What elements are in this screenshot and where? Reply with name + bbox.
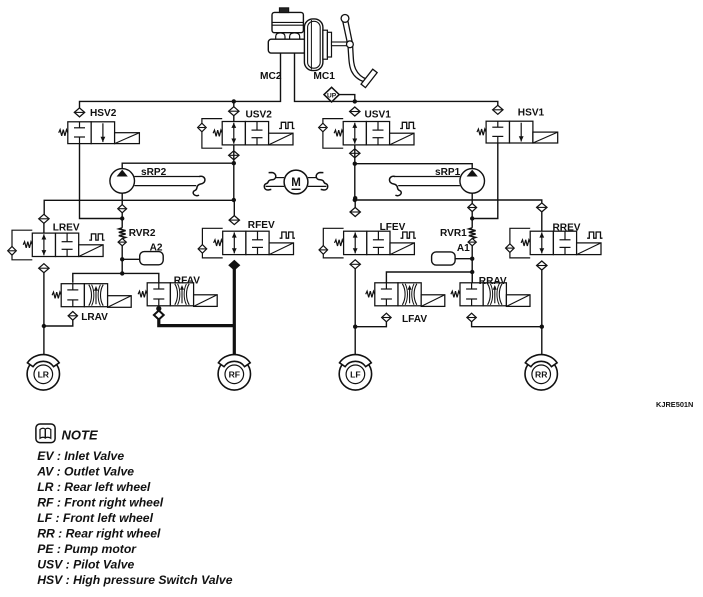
wire RFAV outlet (energized) bbox=[159, 320, 235, 326]
valve RREV bbox=[506, 228, 603, 258]
label A2 bbox=[150, 243, 163, 254]
restrictor RVR2 bbox=[118, 228, 126, 246]
pump sRP2 bbox=[110, 169, 205, 196]
note title bbox=[62, 428, 98, 443]
wire AV feed bus left bbox=[73, 273, 159, 282]
wire RVR1 down bbox=[471, 246, 473, 283]
accumulator A2 bbox=[140, 252, 164, 265]
label RREV bbox=[553, 223, 581, 234]
svg-text:sRP1: sRP1 bbox=[435, 167, 461, 178]
label USV1 bbox=[365, 109, 392, 120]
legend line RR bbox=[37, 527, 161, 541]
label sRP1 bbox=[435, 167, 461, 178]
svg-text:USV1: USV1 bbox=[365, 109, 392, 120]
wire LREV body lead bbox=[43, 223, 45, 233]
LFEV bottom diamond bbox=[350, 260, 360, 269]
junction sRP2 suction bbox=[232, 161, 236, 165]
junction on left rail bbox=[232, 99, 236, 103]
junction HSV1 return bbox=[470, 216, 474, 220]
junction A2 branch bbox=[120, 257, 124, 261]
junction LFAV outlet bbox=[353, 325, 357, 329]
wire RRAV outlet bbox=[472, 322, 542, 327]
svg-text:A2: A2 bbox=[150, 243, 163, 254]
valve HSV2 bbox=[59, 122, 140, 144]
wire RREV to RR wheel bbox=[541, 270, 543, 358]
wire RRAV feed bbox=[471, 272, 473, 283]
svg-text:AV : Outlet Valve: AV : Outlet Valve bbox=[36, 464, 134, 478]
booster push rod bbox=[332, 42, 348, 46]
label RFAV bbox=[174, 275, 200, 286]
wire RVR2 down bbox=[121, 246, 123, 274]
svg-text:PE : Pump motor: PE : Pump motor bbox=[37, 542, 137, 556]
master cylinder body bbox=[268, 39, 306, 53]
RFEV top diamond bbox=[229, 216, 239, 225]
svg-text:RRAV: RRAV bbox=[479, 276, 507, 287]
legend line PE bbox=[37, 542, 137, 556]
label LFEV bbox=[380, 222, 406, 233]
svg-text:LFEV: LFEV bbox=[380, 222, 406, 233]
legend line LR bbox=[37, 480, 151, 494]
svg-text:MC1: MC1 bbox=[313, 71, 335, 82]
svg-text:UP: UP bbox=[327, 92, 337, 99]
wire to accumulator A1 bbox=[455, 258, 472, 260]
wire RFEV drop bbox=[233, 200, 235, 216]
junction pump bus left bbox=[353, 198, 357, 202]
label RRAV bbox=[479, 276, 507, 287]
svg-text:NOTE: NOTE bbox=[62, 428, 98, 443]
brake booster shell bbox=[304, 19, 323, 71]
restrictor RVR1 bbox=[468, 228, 476, 246]
svg-text:RF : Front right wheel: RF : Front right wheel bbox=[37, 495, 164, 509]
label USV2 bbox=[246, 109, 273, 120]
svg-text:LF: LF bbox=[350, 370, 361, 380]
label sRP2 bbox=[141, 167, 167, 178]
USV1 bottom diamond bbox=[350, 149, 360, 158]
valve RFEV bbox=[198, 228, 295, 258]
wire MC2 outlet pipe bbox=[80, 53, 281, 108]
junction LFEV drop bbox=[353, 196, 357, 200]
svg-text:RR: RR bbox=[535, 370, 548, 380]
valve LREV bbox=[8, 230, 105, 260]
junction AV bus left bbox=[120, 271, 124, 275]
label A1 bbox=[457, 243, 470, 254]
wire MC1 outlet pipe bbox=[295, 53, 498, 106]
junction LRAV outlet bbox=[42, 324, 46, 328]
sRP2 outlet diamond bbox=[118, 205, 127, 213]
RREV bottom diamond bbox=[537, 261, 547, 270]
junction HSV2 return bbox=[120, 216, 124, 220]
wire to accumulator A2 bbox=[122, 258, 140, 260]
svg-text:EV : Inlet Valve: EV : Inlet Valve bbox=[37, 449, 124, 463]
reservoir outlet domes bbox=[276, 33, 300, 41]
legend line AV bbox=[36, 464, 134, 478]
motor right coupling bbox=[308, 173, 328, 191]
wire LFEV to LF wheel bbox=[354, 269, 356, 358]
svg-text:M: M bbox=[291, 177, 301, 189]
junction sRP1 suction bbox=[353, 162, 357, 166]
brake pedal arm bbox=[343, 18, 368, 82]
wire RREV body lead bbox=[541, 212, 543, 232]
wire LRAV outlet bbox=[44, 320, 73, 326]
svg-text:RVR1: RVR1 bbox=[440, 228, 467, 239]
junction AV bus right bbox=[470, 270, 474, 274]
pump sRP1 bbox=[389, 169, 484, 196]
wire HSV2 return bbox=[80, 144, 123, 219]
LREV top diamond bbox=[39, 214, 49, 223]
svg-text:LREV: LREV bbox=[53, 223, 80, 234]
svg-text:USV : Pilot Valve: USV : Pilot Valve bbox=[37, 558, 134, 572]
HSV1 inlet diamond bbox=[493, 105, 503, 114]
USV1 top diamond bbox=[350, 107, 360, 116]
label LRAV bbox=[81, 312, 108, 323]
wheel RR bbox=[525, 355, 557, 391]
wire USV1 to pump bus bbox=[354, 145, 356, 200]
valve LRAV bbox=[52, 284, 131, 308]
motor left coupling bbox=[264, 173, 284, 191]
label RVR2 bbox=[129, 228, 156, 239]
wire UP to USV1 branch bbox=[339, 95, 355, 102]
junction RFAV outlet (active) bbox=[156, 306, 161, 311]
svg-text:HSV : High pressure Switch Val: HSV : High pressure Switch Valve bbox=[37, 573, 233, 587]
junction A1 branch bbox=[470, 257, 474, 261]
svg-text:RVR2: RVR2 bbox=[129, 228, 156, 239]
junction RRAV outlet bbox=[540, 325, 544, 329]
proportioning valve UP bbox=[324, 87, 339, 102]
label RVR1 bbox=[440, 228, 467, 239]
LFAV bottom diamond bbox=[382, 313, 391, 322]
svg-text:USV2: USV2 bbox=[246, 109, 273, 120]
label LREV bbox=[53, 223, 80, 234]
accumulator A1 bbox=[432, 252, 456, 265]
svg-text:MC2: MC2 bbox=[260, 71, 282, 82]
pedal pad bbox=[361, 69, 377, 87]
valve RFAV bbox=[138, 283, 217, 307]
booster flange rings bbox=[323, 30, 332, 59]
brake fluid reservoir bbox=[272, 12, 303, 32]
svg-text:RR : Rear right wheel: RR : Rear right wheel bbox=[37, 527, 161, 541]
junction pump bus right bbox=[232, 198, 236, 202]
svg-text:A1: A1 bbox=[457, 243, 470, 254]
wire sRP1 suction line bbox=[355, 164, 472, 169]
label RFEV bbox=[248, 220, 275, 231]
valve LFEV bbox=[319, 228, 416, 258]
RFEV bottom diamond (active) bbox=[229, 261, 239, 270]
valve LFAV bbox=[366, 283, 445, 307]
wire RFEV to RF wheel (energized) bbox=[233, 265, 236, 358]
svg-text:LRAV: LRAV bbox=[81, 312, 108, 323]
pedal pivot pin bbox=[341, 15, 353, 48]
svg-text:KJRE501N: KJRE501N bbox=[656, 400, 693, 409]
legend line HSV bbox=[37, 573, 233, 587]
sRP1 outlet diamond bbox=[468, 203, 477, 211]
valve RRAV bbox=[451, 283, 530, 307]
reservoir cap bbox=[279, 8, 288, 13]
valve USV1 bbox=[319, 119, 416, 149]
RRAV bottom diamond bbox=[467, 313, 476, 322]
valve USV2 bbox=[198, 119, 295, 149]
svg-text:HSV1: HSV1 bbox=[518, 108, 545, 119]
RFAV bottom diamond (active) bbox=[154, 311, 164, 320]
wire LFAV outlet bbox=[355, 322, 386, 327]
legend line RF bbox=[37, 495, 164, 509]
valve HSV1 bbox=[477, 121, 558, 143]
wire HSV2 drop bbox=[233, 101, 235, 121]
legend line EV bbox=[37, 449, 124, 463]
svg-text:RREV: RREV bbox=[553, 223, 581, 234]
USV2 bottom diamond bbox=[229, 151, 239, 160]
label MC2 bbox=[260, 71, 282, 82]
wire sRP1 to RVR1 bbox=[471, 212, 473, 228]
wire pump bus right bbox=[355, 200, 542, 203]
label HSV2 bbox=[90, 108, 117, 119]
HSV2 inlet diamond bbox=[74, 108, 84, 117]
svg-text:RF: RF bbox=[229, 370, 240, 380]
svg-text:LR: LR bbox=[38, 370, 50, 380]
junction on right rail bbox=[353, 99, 357, 103]
wire USV2 to pump bus bbox=[233, 145, 235, 200]
svg-text:LR : Rear left wheel: LR : Rear left wheel bbox=[37, 480, 151, 494]
label LFAV bbox=[402, 314, 427, 325]
svg-text:LF : Front left wheel: LF : Front left wheel bbox=[37, 511, 153, 525]
LREV bottom diamond bbox=[39, 264, 49, 273]
wire sRP2 to RVR2 bbox=[121, 213, 123, 228]
legend line USV bbox=[37, 558, 134, 572]
wheel LF bbox=[339, 355, 371, 391]
note icon bbox=[36, 424, 55, 443]
drawing number bbox=[656, 400, 693, 409]
wheel LR bbox=[27, 355, 59, 391]
USV2 top diamond bbox=[229, 107, 239, 116]
pump motor M bbox=[284, 170, 308, 194]
wire pump bus left bbox=[44, 200, 234, 214]
svg-text:HSV2: HSV2 bbox=[90, 108, 117, 119]
wire AV feed bus right bbox=[386, 272, 472, 283]
wire sRP2 suction line bbox=[122, 163, 234, 168]
RREV top diamond bbox=[537, 203, 547, 212]
svg-text:RFEV: RFEV bbox=[248, 220, 275, 231]
label MC1 bbox=[313, 71, 335, 82]
LFEV top diamond bbox=[350, 208, 360, 217]
wire HSV1 return bbox=[472, 143, 498, 219]
label HSV1 bbox=[518, 108, 545, 119]
wire sRP2 outlet bbox=[121, 193, 123, 205]
svg-text:LFAV: LFAV bbox=[402, 314, 427, 325]
legend line LF bbox=[37, 511, 153, 525]
svg-text:RFAV: RFAV bbox=[174, 275, 200, 286]
wheel RF bbox=[218, 355, 250, 391]
LRAV bottom diamond bbox=[68, 312, 77, 321]
wire sRP1 outlet bbox=[471, 193, 473, 203]
svg-text:sRP2: sRP2 bbox=[141, 167, 167, 178]
wire LREV to LR wheel bbox=[43, 273, 45, 358]
wire LFEV drop bbox=[354, 200, 356, 208]
